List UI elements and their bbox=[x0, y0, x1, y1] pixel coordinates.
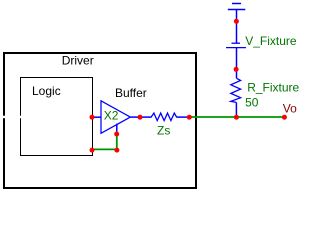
svg-text:Buffer: Buffer bbox=[115, 86, 147, 100]
wire: ground to battery bbox=[236, 10, 238, 44]
white gap in Driver left border bbox=[2, 116, 8, 119]
svg-text:50: 50 bbox=[245, 96, 259, 110]
wire: feedback horizontal bbox=[92, 148, 117, 150]
junction dot battery-resistor bbox=[234, 67, 239, 72]
wire: feedback vertical bbox=[116, 134, 118, 150]
junction dot Zs right bbox=[187, 115, 192, 120]
svg-text:Zs: Zs bbox=[157, 123, 170, 137]
wire: buffer output lead bbox=[131, 116, 141, 118]
resistor Zs body bbox=[151, 113, 177, 121]
ground bottom line bbox=[228, 9, 246, 11]
subcircuit box Driver bbox=[4, 53, 196, 188]
wire: battery to resistor bbox=[236, 48, 238, 79]
svg-text:V_Fixture: V_Fixture bbox=[245, 34, 297, 48]
ground top line bbox=[232, 3, 241, 5]
wire: output net to Vo bbox=[190, 116, 285, 118]
battery V_Fixture long plate bbox=[226, 47, 246, 49]
node Vo dot bbox=[282, 115, 287, 120]
junction dot feedback at logic bbox=[90, 148, 95, 153]
junction dot buffer bottom pin bbox=[114, 132, 119, 137]
wire: buffer bottom pin bbox=[116, 124, 118, 132]
subcircuit box Logic bbox=[21, 78, 93, 156]
junction dot buffer output bbox=[138, 115, 143, 120]
wire: buffer input lead bbox=[92, 116, 101, 118]
white gap in Logic left border bbox=[19, 116, 22, 119]
junction dot feedback corner bbox=[114, 148, 119, 153]
resistor Zs left lead bbox=[140, 116, 152, 118]
junction dot ground-battery bbox=[234, 19, 239, 24]
op-amp buffer X2 bbox=[101, 101, 130, 134]
junction dot logic output bbox=[90, 115, 95, 120]
svg-text:Driver: Driver bbox=[62, 53, 94, 67]
svg-text:X2: X2 bbox=[104, 109, 119, 123]
resistor R_Fixture bottom lead bbox=[235, 102, 237, 117]
svg-text:R_Fixture: R_Fixture bbox=[247, 81, 299, 95]
junction dot output net bbox=[234, 115, 239, 120]
battery V_Fixture short plate bbox=[232, 42, 241, 44]
resistor R_Fixture body bbox=[231, 78, 241, 102]
svg-text:Logic: Logic bbox=[32, 84, 61, 98]
svg-text:Vo: Vo bbox=[283, 102, 297, 116]
resistor Zs right lead bbox=[176, 116, 189, 118]
